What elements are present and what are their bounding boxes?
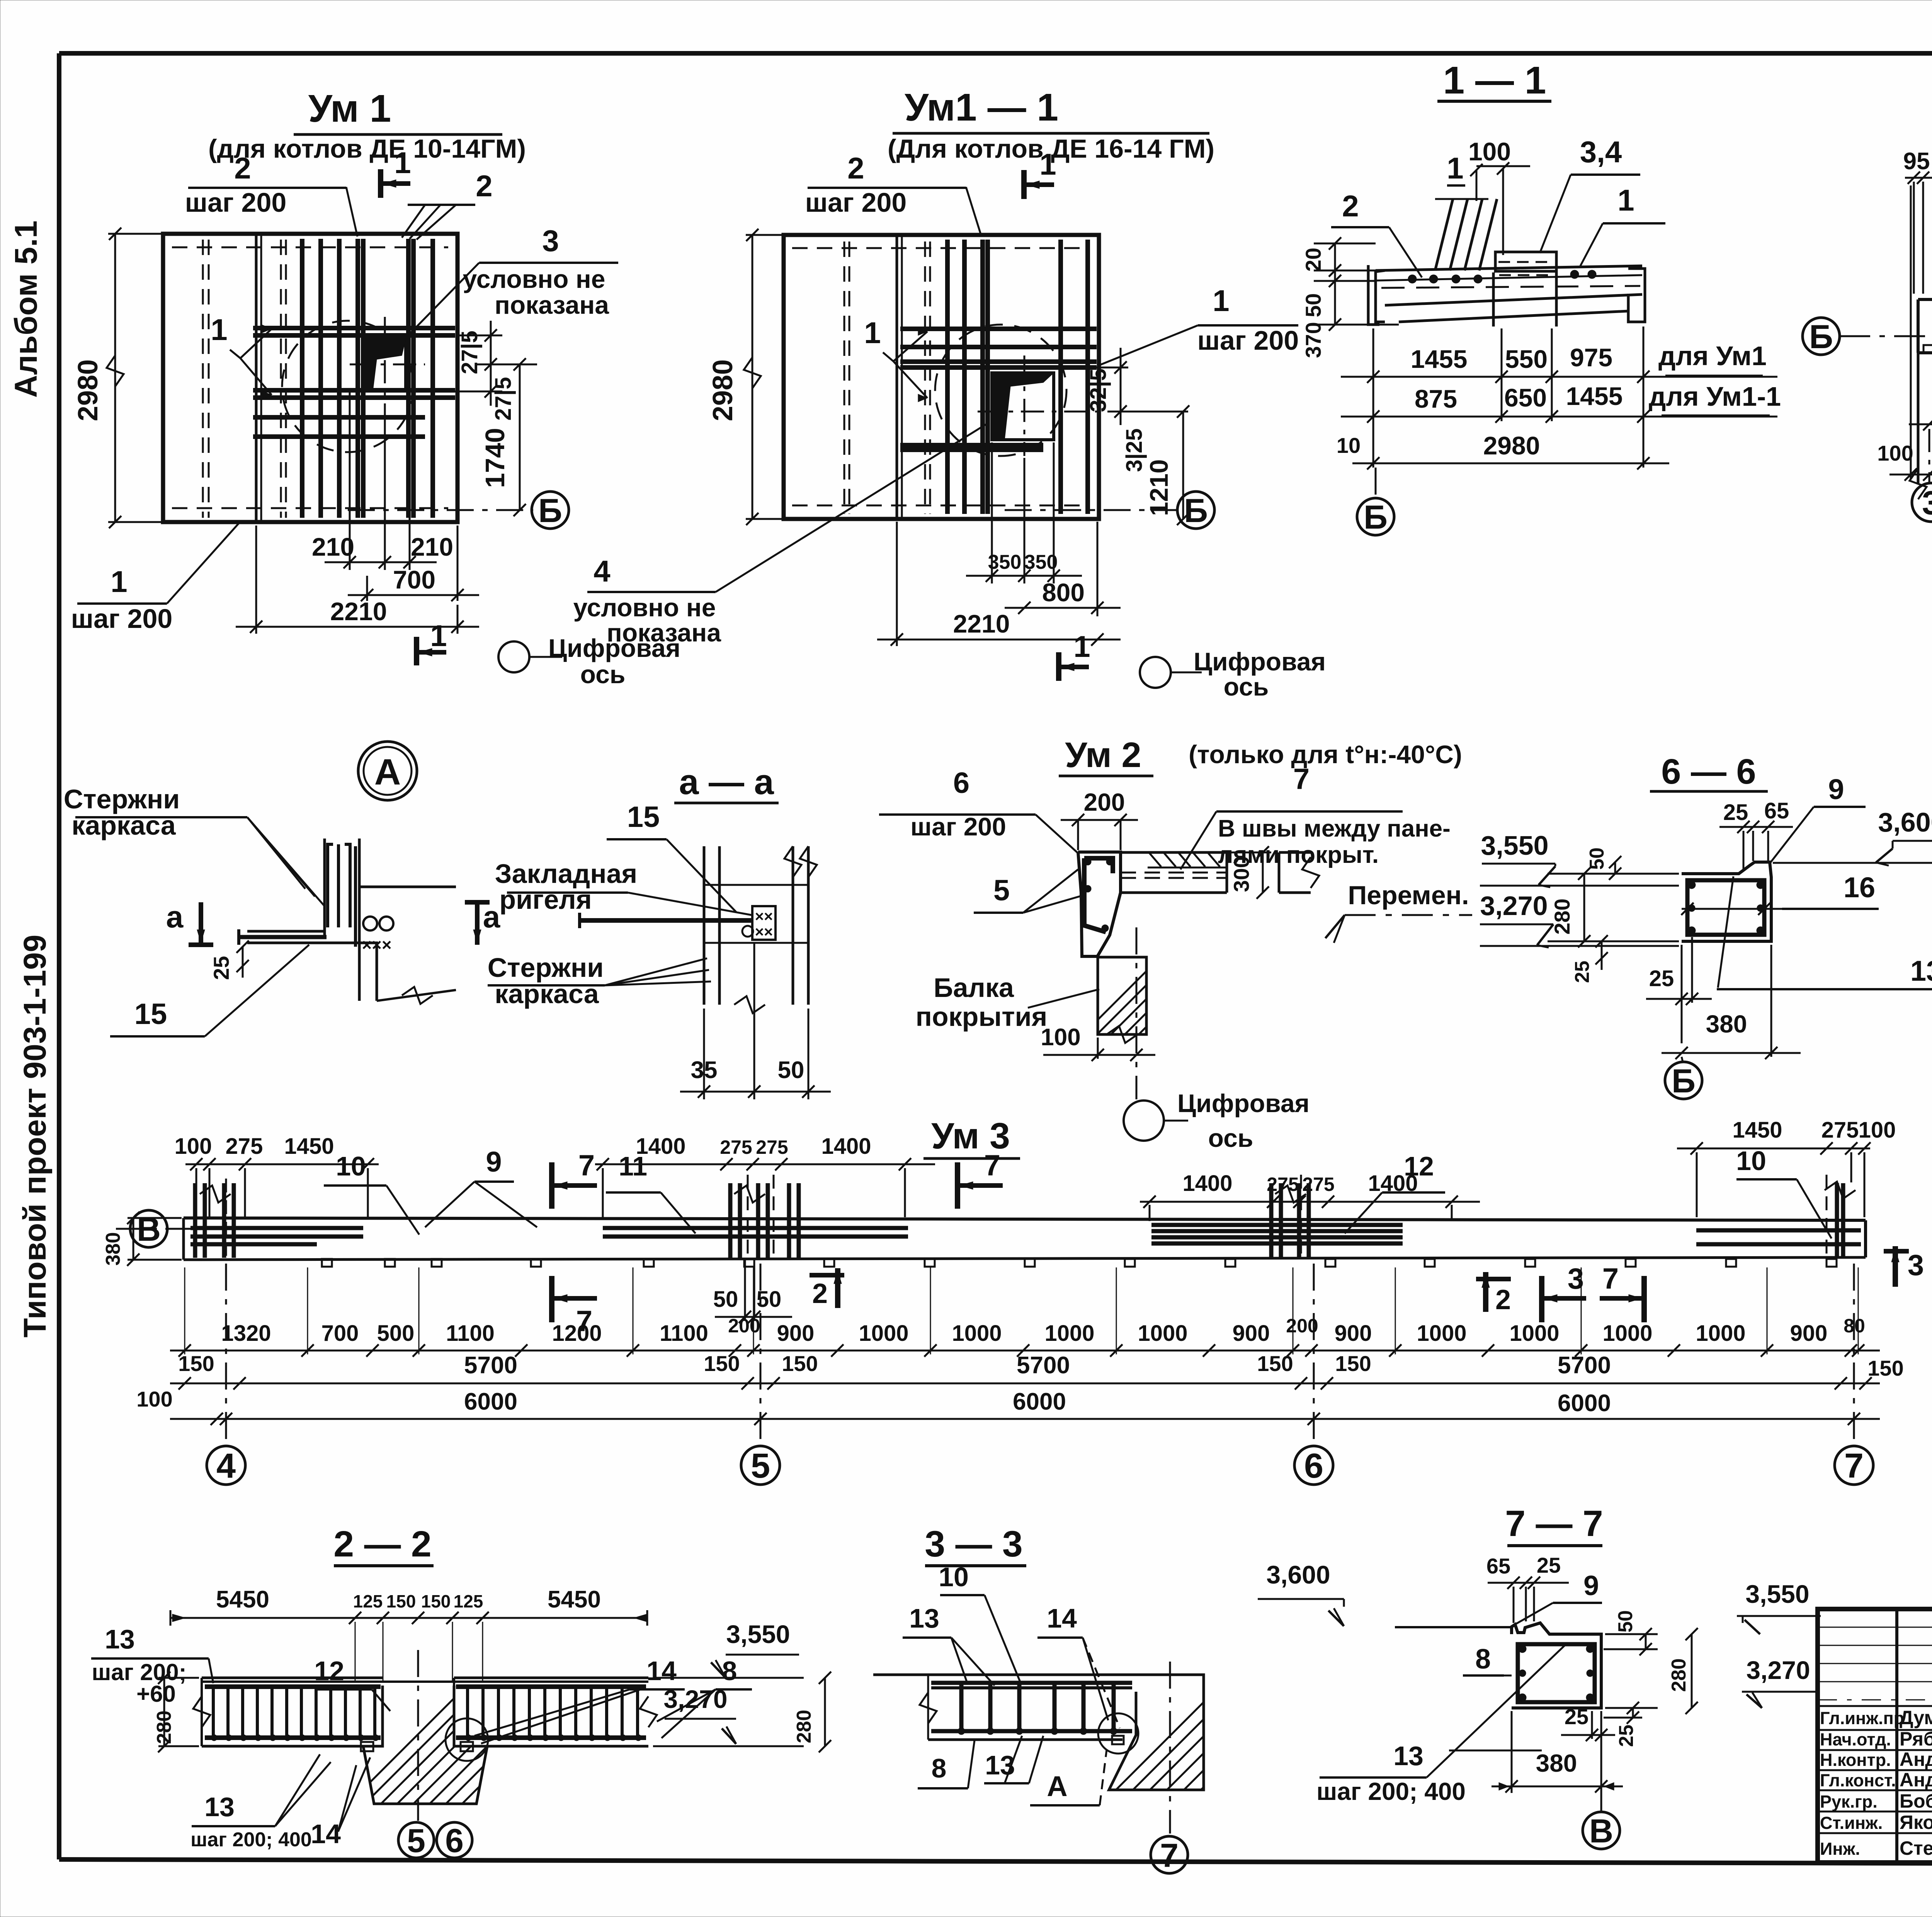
svg-text:1: 1 [1039, 147, 1056, 181]
svg-text:6000: 6000 [1013, 1388, 1066, 1415]
svg-text:А: А [374, 752, 401, 793]
svg-text:350: 350 [988, 551, 1022, 573]
panel Ум1-1 horizontal rebars [900, 329, 1097, 450]
svg-text:Гл.инж.пр: Гл.инж.пр [1820, 1708, 1904, 1728]
title 2 — 2 [333, 1524, 434, 1566]
svg-text:3: 3 [1922, 485, 1932, 522]
section 7-7 stirrup [1518, 1644, 1595, 1702]
svg-text:5700: 5700 [464, 1352, 517, 1379]
svg-text:1: 1 [1073, 629, 1090, 663]
label 7 and В швы между панелями покрыт [1180, 763, 1451, 869]
label 13 шаг 200; 400 (7-7) [1316, 1643, 1568, 1805]
opening with filled corner Ум1 [350, 317, 425, 413]
svg-text:8: 8 [932, 1753, 947, 1783]
svg-text:7: 7 [1160, 1837, 1179, 1874]
svg-text:Инж.: Инж. [1820, 1839, 1860, 1859]
svg-text:25: 25 [209, 956, 233, 980]
svg-text:50: 50 [1614, 1610, 1637, 1633]
svg-text:1320: 1320 [221, 1321, 271, 1346]
svg-text:(для котлов ДЕ 10-14ГМ): (для котлов ДЕ 10-14ГМ) [208, 134, 526, 163]
svg-text:6: 6 [445, 1822, 464, 1859]
svg-text:Андриевская: Андриевская [1900, 1769, 1932, 1791]
label 13 with leader (6-6) [1717, 876, 1932, 989]
svg-text:275: 275 [1821, 1118, 1859, 1143]
svg-text:Цифровая: Цифровая [1194, 647, 1326, 676]
svg-text:1: 1 [1447, 151, 1463, 185]
axis line Б with circle (Ум1) [348, 492, 569, 529]
svg-text:Яковчик: Яковчик [1900, 1812, 1932, 1833]
embedded plate with weld (a-a) [752, 906, 776, 941]
svg-text:5450: 5450 [548, 1586, 601, 1613]
title 6 — 6 [1650, 752, 1768, 791]
svg-text:Стержни: Стержни [488, 953, 604, 983]
svg-text:Б: Б [1809, 318, 1833, 356]
svg-text:5: 5 [993, 874, 1010, 907]
axis line and circles 5 6 (2-2) [398, 1650, 472, 1859]
svg-text:11: 11 [619, 1151, 647, 1181]
svg-text:шаг 200; 400: шаг 200; 400 [1316, 1778, 1466, 1805]
label 8 (2-2) [657, 1656, 752, 1738]
axis В circle left (Ум3) [116, 1210, 216, 1248]
svg-text:3,550: 3,550 [726, 1620, 790, 1648]
svg-text:13: 13 [1393, 1741, 1423, 1771]
title block main outline [1818, 1609, 1932, 1863]
svg-text:150: 150 [386, 1591, 416, 1611]
axis circle Б (Ум1-1) [1005, 492, 1214, 529]
svg-text:2: 2 [1495, 1284, 1511, 1315]
svg-text:500: 500 [377, 1321, 415, 1346]
svg-text:1000: 1000 [952, 1321, 1002, 1346]
bar of ригель (a-a) [580, 913, 753, 937]
detail circle А (2-2) [446, 1718, 488, 1761]
svg-text:380: 380 [1706, 1010, 1747, 1038]
dim row 100 275 1450 (Ум3 left) [175, 1134, 379, 1217]
label 12 (2-2) [314, 1656, 390, 1711]
label 13 (3-3 bottom) [984, 1736, 1043, 1783]
svg-text:3,4: 3,4 [1580, 135, 1622, 169]
dimension 350 350 (Ум1-1) [966, 442, 1082, 583]
svg-text:12: 12 [314, 1656, 344, 1686]
svg-text:100: 100 [136, 1387, 172, 1411]
label 12 (Ум3) [1345, 1151, 1445, 1233]
dim row 5450 125 150 150 125 5450 (2-2) [170, 1586, 647, 1681]
svg-text:В: В [137, 1211, 161, 1248]
node A circle [358, 742, 417, 800]
title а — а [674, 762, 779, 803]
label 5 with leaders (Ум2) [974, 869, 1082, 913]
svg-text:3,600: 3,600 [1878, 807, 1932, 837]
svg-text:13: 13 [1910, 955, 1932, 987]
level 3,600 (7-7) [1258, 1560, 1344, 1626]
svg-text:(только для t°н:-40°C): (только для t°н:-40°C) [1189, 740, 1462, 769]
svg-text:10: 10 [1736, 1146, 1766, 1176]
label 14 (2-2 top right) [474, 1656, 685, 1744]
svg-text:50: 50 [1586, 847, 1608, 870]
svg-text:4: 4 [216, 1447, 236, 1485]
svg-text:10: 10 [939, 1562, 969, 1592]
svg-text:1000: 1000 [1044, 1321, 1094, 1346]
dimension rows 1-1 (1455 550 975 / 875 650 1455 / 2980) [1337, 327, 1781, 469]
svg-text:1: 1 [430, 619, 447, 653]
section 7-7 shape [1395, 1623, 1601, 1750]
svg-text:700: 700 [393, 565, 435, 594]
svg-text:Альбом 5.1: Альбом 5.1 [9, 221, 44, 398]
svg-text:100: 100 [1041, 1024, 1080, 1051]
label Балка покрытия [916, 973, 1099, 1032]
plate squares at joint (2-2) [361, 1742, 473, 1751]
band Ум3 horizontal bars [190, 1225, 1861, 1244]
svg-text:каркаса: каркаса [495, 979, 599, 1009]
svg-text:1000: 1000 [1138, 1321, 1187, 1346]
svg-text:показана: показана [607, 618, 721, 647]
title 7 — 7 [1505, 1503, 1603, 1546]
svg-text:условно не: условно не [463, 265, 605, 293]
dim row 1400 275 275 1400 (axis5) [595, 1134, 935, 1217]
svg-text:100: 100 [175, 1134, 212, 1159]
svg-text:5700: 5700 [1558, 1352, 1611, 1379]
dimension 800 (Ум1-1) [1005, 522, 1121, 616]
section mark 1 (bottom) [417, 619, 447, 665]
svg-text:100: 100 [1859, 1118, 1896, 1143]
svg-text:32|5: 32|5 [1086, 369, 1111, 412]
section 6-6 shape [1682, 862, 1771, 941]
bars 1 rising bundle [1435, 199, 1497, 270]
svg-text:50: 50 [713, 1287, 738, 1312]
svg-text:1: 1 [1213, 284, 1229, 318]
svg-text:В: В [1589, 1813, 1613, 1850]
svg-text:3,550: 3,550 [1745, 1580, 1809, 1608]
dimension 380 (7-7) [1492, 1711, 1623, 1793]
svg-text:2210: 2210 [330, 597, 387, 626]
dimension 380 (6-6) [1662, 945, 1801, 1059]
label 1 шаг 200 (bottom-left) [71, 522, 240, 634]
label 4 условно не показана [573, 424, 986, 647]
label 2 left with leader [1331, 189, 1422, 277]
svg-text:Нач.отд.: Нач.отд. [1820, 1730, 1891, 1749]
svg-text:В швы между пане-: В швы между пане- [1218, 815, 1451, 842]
svg-text:1400: 1400 [821, 1134, 871, 1159]
svg-text:2: 2 [812, 1278, 828, 1309]
svg-text:ось: ось [1208, 1124, 1253, 1152]
svg-text:5700: 5700 [1017, 1352, 1070, 1379]
label 11 (Ум3) [606, 1151, 696, 1233]
svg-text:6: 6 [1304, 1447, 1323, 1485]
svg-text:25: 25 [1615, 1725, 1638, 1747]
dimension 2980 (Ум1-1) [707, 229, 788, 525]
label 13 шаг 200; 400 (2-2 bottom) [190, 1754, 331, 1851]
svg-text:13: 13 [909, 1603, 939, 1633]
svg-text:10: 10 [336, 1151, 366, 1181]
dimension 25 65 (6-6 top) [1719, 798, 1793, 871]
svg-text:ригеля: ригеля [499, 885, 592, 915]
dimension 2980 (left) [73, 228, 166, 528]
digital axis circle and label (Ум1) [498, 634, 680, 689]
svg-text:×××: ××× [362, 936, 391, 954]
panel Ум1-1 vertical rebars [947, 240, 1088, 514]
svg-text:Рябуха: Рябуха [1900, 1728, 1932, 1750]
label 13 (3-3 top) [903, 1603, 995, 1686]
dimension 100 (1-1 top) [1468, 137, 1530, 255]
support block hatched (2-2) [336, 1669, 645, 1816]
dimension row Ум4 top (95 1100 1000 1000 1000 1100 80 150 700 150) [1903, 148, 1932, 294]
svg-text:2980: 2980 [1483, 431, 1540, 460]
svg-text:200: 200 [1084, 788, 1125, 816]
svg-text:2980: 2980 [707, 359, 738, 421]
svg-text:1100: 1100 [660, 1321, 708, 1346]
svg-text:150: 150 [1335, 1351, 1371, 1376]
digital axis of Ум2 [1124, 927, 1310, 1152]
svg-text:Балка: Балка [934, 973, 1014, 1003]
svg-text:650: 650 [1504, 383, 1547, 412]
section 6-6 stirrup [1687, 880, 1764, 935]
svg-text:65: 65 [1764, 798, 1789, 823]
label 10 right (Ум3) [1736, 1146, 1832, 1238]
svg-text:1: 1 [211, 313, 227, 347]
svg-text:1000: 1000 [1696, 1321, 1745, 1346]
svg-text:200: 200 [728, 1315, 760, 1337]
svg-text:2: 2 [1342, 189, 1359, 223]
svg-text:1: 1 [111, 565, 127, 599]
svg-text:6 — 6: 6 — 6 [1661, 752, 1756, 791]
svg-text:Б: Б [1364, 499, 1388, 536]
label 9 (7-7) [1516, 1570, 1602, 1624]
dim 280 (2-2 left) [153, 1672, 199, 1752]
svg-text:275: 275 [720, 1136, 752, 1158]
dimensions 370 50 20 rotated (1-1 left) [1301, 237, 1399, 358]
label 2 шаг 200 (Ум1-1) [805, 151, 981, 236]
label Стержни каркаса (a-a) [488, 953, 711, 1009]
svg-text:Цифровая: Цифровая [1177, 1089, 1310, 1118]
label 16 with leader (6-6) [1681, 871, 1879, 915]
svg-text:275: 275 [1302, 1174, 1334, 1195]
label 3 условно не показана [410, 224, 618, 333]
label 8 (3-3) [918, 1740, 975, 1788]
label 15 (a-a) [607, 801, 736, 912]
dimension 65 25 (7-7 top) [1486, 1553, 1569, 1623]
svg-text:7: 7 [1293, 763, 1310, 796]
svg-text:3|25: 3|25 [1122, 429, 1147, 472]
svg-text:25: 25 [1649, 966, 1674, 991]
svg-text:27|5: 27|5 [491, 377, 516, 421]
dimension 25 (node A) [209, 941, 249, 980]
dimension 100 (Ум2) [1041, 1024, 1155, 1061]
digital axis circle (Ум1-1) [1140, 647, 1326, 701]
svg-text:7: 7 [1844, 1447, 1864, 1485]
dimension 100 6000 275 row (Ум4) [1877, 185, 1932, 481]
label 2 шаг 200 (top-left) [185, 151, 357, 236]
svg-text:шаг 200: шаг 200 [1197, 325, 1299, 356]
svg-text:900: 900 [1233, 1321, 1270, 1346]
svg-text:Ум 2: Ум 2 [1065, 735, 1141, 775]
opening with filled corner Ум1-1 [978, 356, 1113, 456]
svg-text:50: 50 [1301, 293, 1325, 317]
section 1-1 middle ribs [1493, 270, 1556, 327]
section mark 1 (top) [381, 146, 411, 198]
svg-text:Ст.инж.: Ст.инж. [1820, 1813, 1883, 1833]
title Ум 2 [1059, 735, 1462, 776]
panel Ум1-1 dashed lines [792, 242, 1090, 514]
svg-text:13: 13 [204, 1792, 235, 1822]
dimension 1210 (Ум1-1 right) [1145, 405, 1189, 525]
svg-text:12: 12 [1404, 1151, 1434, 1181]
rebar dots section 1-1 [1408, 270, 1596, 283]
svg-text:4: 4 [594, 554, 610, 588]
dashed circle (not shown conditionally) [282, 321, 413, 452]
svg-text:2: 2 [847, 151, 864, 185]
svg-text:1000: 1000 [1602, 1321, 1652, 1346]
svg-text:125: 125 [353, 1591, 383, 1611]
svg-text:2980: 2980 [73, 359, 104, 421]
svg-text:Стержни: Стержни [64, 784, 180, 814]
dimension 2210 (Ум1) [236, 526, 479, 634]
svg-text:6000: 6000 [464, 1388, 517, 1415]
svg-text:Б: Б [538, 492, 562, 529]
label Перемен with mark [1325, 881, 1472, 943]
slab band 2-2 left [193, 1678, 383, 1746]
svg-text:13: 13 [105, 1624, 135, 1654]
svg-text:10: 10 [1337, 433, 1361, 458]
svg-text:Степанова: Степанова [1900, 1837, 1932, 1859]
beam Ум4 outline [1918, 256, 1932, 353]
slab band 2-2 right [454, 1678, 657, 1746]
top bar continuous 2-2 [202, 1681, 648, 1683]
svg-text:а — а: а — а [679, 762, 774, 802]
svg-text:ось: ось [580, 660, 626, 689]
svg-text:каркаса: каркаса [71, 810, 176, 840]
svg-text:275: 275 [756, 1136, 788, 1158]
axis line and circle 7 (3-3) [1151, 1662, 1188, 1874]
dashed circle Ум1-1 [935, 325, 1066, 456]
svg-text:280: 280 [1550, 898, 1574, 934]
levels 3,550 3,270 (7-7 right) [1658, 1580, 1824, 1708]
svg-text:шаг 200: шаг 200 [71, 604, 173, 634]
svg-text:975: 975 [1570, 343, 1612, 372]
svg-text:25: 25 [1537, 1553, 1561, 1577]
svg-text:9: 9 [1828, 773, 1844, 805]
dimension 150 5700 150 row (Ум4) [1909, 267, 1932, 430]
svg-text:2: 2 [476, 169, 492, 203]
panel Ум1 vertical rebars [302, 239, 433, 518]
svg-text:150: 150 [704, 1351, 740, 1376]
dim 380 rotated (Ум3 left) [102, 1212, 182, 1266]
svg-text:25: 25 [1571, 961, 1594, 983]
section marks 7 top (Ум3) [552, 1149, 1003, 1209]
title block left grid [1818, 1609, 1932, 1863]
svg-text:a: a [166, 900, 184, 934]
axis circle Б (6-6) [1665, 1057, 1702, 1100]
svg-text:2 — 2: 2 — 2 [333, 1524, 431, 1565]
svg-text:800: 800 [1042, 578, 1085, 607]
svg-text:Б: Б [1184, 492, 1208, 529]
right dims 50 280 25 (7-7) [1604, 1610, 1698, 1747]
label 1 fork (Ум1-1) [864, 316, 927, 402]
svg-text:Думан: Думан [1900, 1707, 1932, 1728]
svg-text:14: 14 [1047, 1603, 1077, 1633]
plate square and detail circle А (3-3) [1098, 1713, 1138, 1754]
svg-text:1450: 1450 [1732, 1118, 1782, 1143]
label Закладная ригеля [495, 859, 752, 915]
label 9 with leader (6-6) [1770, 773, 1866, 862]
svg-text:210: 210 [312, 532, 354, 561]
svg-text:Типовой проект 903-1-199: Типовой проект 903-1-199 [17, 935, 53, 1338]
svg-text:14: 14 [646, 1656, 677, 1686]
svg-text:2210: 2210 [953, 609, 1010, 638]
axis Б line and circle (Ум4) [1803, 318, 1932, 356]
svg-text:3,270: 3,270 [1746, 1656, 1810, 1684]
support block hatched (3-3) [1097, 1662, 1397, 1808]
dimension 210 210 (Ум1) [312, 391, 453, 570]
svg-text:Б: Б [1672, 1063, 1696, 1100]
svg-text:Бобрук: Бобрук [1900, 1790, 1932, 1812]
label 15 (node A) [110, 945, 309, 1036]
svg-text:6000: 6000 [1558, 1390, 1611, 1417]
plate squares below band (Ум3) [322, 1259, 1837, 1267]
dim row 1400 275 275 1400 (axis6) [1140, 1171, 1480, 1221]
svg-text:Перемен.: Перемен. [1348, 881, 1469, 910]
svg-text:3,270: 3,270 [1480, 891, 1548, 921]
svg-text:Гл.конст.: Гл.конст. [1820, 1771, 1896, 1790]
svg-text:50: 50 [778, 1057, 804, 1084]
svg-text:5450: 5450 [216, 1586, 269, 1613]
svg-text:1 — 1: 1 — 1 [1443, 59, 1546, 102]
dim row A segment dims (Ум3) [170, 1267, 1880, 1357]
svg-text:5: 5 [751, 1447, 770, 1485]
svg-text:1: 1 [1617, 183, 1634, 217]
axis circle В (7-7) [1583, 1711, 1620, 1850]
axis circles 3 and 4 (Ум4) [1912, 363, 1932, 524]
title Ум1-1 [888, 86, 1214, 163]
svg-text:××: ×× [755, 908, 773, 925]
svg-text:для Ум1-1: для Ум1-1 [1649, 381, 1781, 412]
svg-text:Андриевская: Андриевская [1900, 1749, 1932, 1770]
svg-text:900: 900 [777, 1321, 815, 1346]
svg-text:150: 150 [782, 1351, 818, 1376]
svg-text:1: 1 [394, 146, 411, 180]
svg-text:3 — 3: 3 — 3 [925, 1524, 1022, 1565]
svg-text:1455: 1455 [1566, 382, 1623, 410]
dimension 200 (Ум2) [1061, 788, 1138, 850]
label 1 with fork leaders (middle) [211, 313, 272, 399]
svg-text:показана: показана [495, 291, 609, 319]
svg-text:150: 150 [421, 1591, 451, 1611]
svg-text:280: 280 [153, 1711, 175, 1744]
dim row C 6000 (Ум3) [136, 1387, 1880, 1425]
dimension 35 50 (a-a) [680, 943, 831, 1099]
panel Ум1-1 outline [784, 235, 1099, 519]
section mark 1 (Ум1-1 top) [1024, 147, 1056, 199]
title 3 — 3 [925, 1524, 1026, 1566]
svg-text:1000: 1000 [859, 1321, 908, 1346]
dimension 1740 (Ум1 right) [475, 358, 537, 516]
svg-text:14: 14 [311, 1819, 341, 1849]
band Ум3 top rebar clusters [195, 1182, 1855, 1258]
svg-text:3,270: 3,270 [663, 1685, 727, 1713]
svg-text:1740: 1740 [480, 428, 510, 488]
svg-text:1200: 1200 [552, 1321, 602, 1346]
label 8 (7-7) [1463, 1644, 1512, 1675]
svg-text:350: 350 [1024, 551, 1058, 573]
panel Ум1 dashed edge lines [172, 240, 448, 518]
svg-text:95: 95 [1903, 148, 1930, 175]
svg-text:7 — 7: 7 — 7 [1505, 1503, 1603, 1544]
svg-text:8: 8 [1475, 1644, 1491, 1675]
dimensions 275 275 (Ум1 right) [427, 321, 516, 421]
dimension 300 (Ум2) [1124, 846, 1271, 899]
svg-text:370: 370 [1301, 322, 1325, 358]
plate squares on beam bottom [1923, 289, 1932, 353]
label Стержни каркаса (node A) [64, 784, 325, 906]
level mark 3,600 (6-6) [1773, 807, 1932, 866]
